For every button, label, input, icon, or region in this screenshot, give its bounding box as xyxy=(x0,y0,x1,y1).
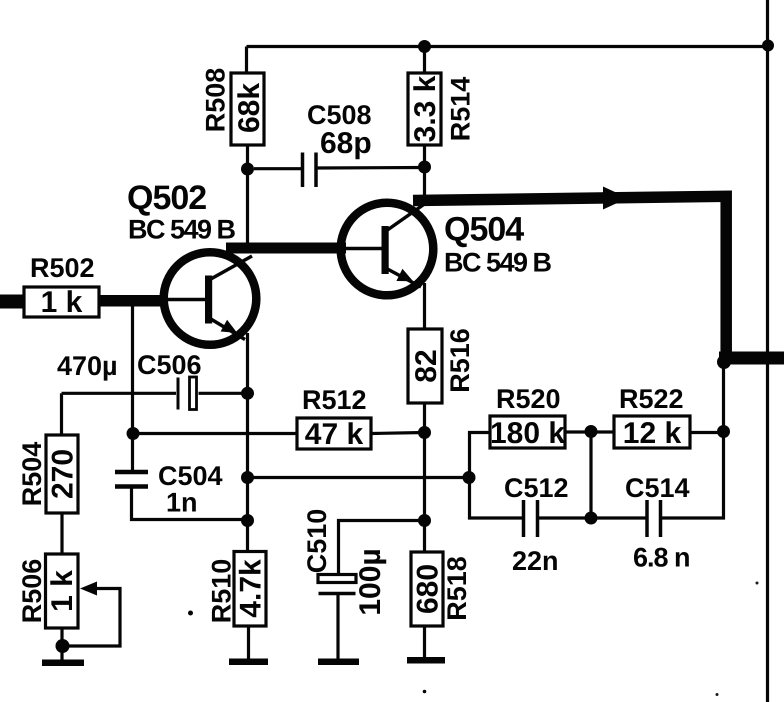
wire base node down to R512 xyxy=(131,303,134,434)
svg-text:4.7k: 4.7k xyxy=(235,559,268,618)
node junction rail / right border xyxy=(762,40,774,52)
resistor R520 180k xyxy=(490,384,565,450)
resistor R522 12k xyxy=(614,384,690,450)
resistor R512 47k xyxy=(133,385,425,451)
node junction feedback right xyxy=(463,471,476,484)
svg-text:Q504: Q504 xyxy=(444,211,524,249)
svg-text:12 k: 12 k xyxy=(623,417,682,450)
ground R510 xyxy=(229,659,268,666)
svg-text:22n: 22n xyxy=(512,546,559,576)
svg-text:BC 549 B: BC 549 B xyxy=(128,215,236,245)
wire feedback emitter to RC network xyxy=(248,476,470,479)
wire R514 bottom to Q504 collector xyxy=(423,145,426,198)
resistor R504 270 xyxy=(17,393,80,554)
label Q502 type BC549B xyxy=(128,215,236,245)
resistor R516 82 xyxy=(408,283,475,433)
node junction rail / R514 xyxy=(418,40,431,53)
capacitor C506 470u xyxy=(57,350,248,410)
svg-text:R520: R520 xyxy=(496,384,561,414)
capacitor C510 100u xyxy=(302,509,425,659)
wire rail corner to R508 xyxy=(245,47,248,74)
svg-text:R506: R506 xyxy=(17,559,47,624)
speck xyxy=(716,693,719,696)
resistor R508 6.8k xyxy=(201,68,267,145)
wire thick Q502 collector to Q504 base xyxy=(226,243,346,254)
svg-text:47 k: 47 k xyxy=(305,418,364,451)
svg-text:C504: C504 xyxy=(158,461,223,491)
resistor R506 1k preset xyxy=(17,554,120,660)
wire output node down to R522 xyxy=(722,365,725,432)
svg-text:C506: C506 xyxy=(137,350,202,380)
svg-text:68k: 68k xyxy=(233,83,266,133)
svg-text:68p: 68p xyxy=(320,127,372,160)
node junction C508 left xyxy=(241,163,254,176)
svg-text:100µ: 100µ xyxy=(354,548,387,615)
label Q504 xyxy=(444,211,524,249)
label Q502 xyxy=(127,179,206,217)
capacitor C514 6.8n xyxy=(591,432,724,573)
arrowhead on output wire xyxy=(603,187,628,210)
wire R520 to R522 xyxy=(565,430,614,433)
wire R522 right xyxy=(690,431,724,434)
wire thick R502 to Q502 base xyxy=(99,295,167,307)
label Q504 type BC549B xyxy=(444,248,552,278)
svg-text:C510: C510 xyxy=(302,509,332,574)
svg-text:180 k: 180 k xyxy=(490,417,565,450)
svg-text:1 k: 1 k xyxy=(46,570,79,612)
node junction R522 right xyxy=(717,425,730,438)
wire R520 C512 left branch xyxy=(470,433,524,519)
wire Q504 emitter branch down xyxy=(423,433,426,553)
wire middle branch vertical xyxy=(589,432,592,519)
wire top supply rail xyxy=(247,45,770,48)
capacitor C504 1n xyxy=(115,434,248,520)
svg-text:C514: C514 xyxy=(625,473,690,503)
svg-text:270: 270 xyxy=(47,449,80,499)
wire thick output to right edge xyxy=(719,352,784,365)
svg-text:6.8 n: 6.8 n xyxy=(633,543,690,573)
node junction R512 right / R516 bottom xyxy=(418,426,431,439)
transistor Q504 xyxy=(341,202,434,296)
resistor R518 680 xyxy=(411,552,472,659)
capacitor C512 22n xyxy=(504,473,591,576)
svg-text:R502: R502 xyxy=(30,253,95,283)
node junction C504 / emitter xyxy=(241,514,254,527)
svg-text:1n: 1n xyxy=(166,488,198,518)
wire R508 bottom to Q502 collector xyxy=(246,145,249,244)
speck xyxy=(756,582,759,585)
wire Q502 emitter down to R510 xyxy=(246,333,249,552)
svg-text:R504: R504 xyxy=(17,442,47,507)
node junction output corner xyxy=(717,355,731,369)
svg-text:R510: R510 xyxy=(207,559,237,624)
capacitor C508 68p xyxy=(254,100,425,187)
resistor R502 1k xyxy=(24,253,99,319)
svg-text:C508: C508 xyxy=(307,100,372,130)
ground R518 xyxy=(407,657,445,664)
resistor R510 4.7k xyxy=(207,552,268,659)
svg-text:R512: R512 xyxy=(302,385,367,415)
speck xyxy=(423,690,427,694)
svg-text:R516: R516 xyxy=(445,328,475,393)
svg-text:R522: R522 xyxy=(619,384,684,414)
svg-text:3.3 k: 3.3 k xyxy=(409,75,442,142)
node junction feedback / emitter xyxy=(241,471,254,484)
wire right bus line xyxy=(766,0,769,702)
svg-text:82: 82 xyxy=(410,349,443,382)
ground R506 xyxy=(42,660,84,667)
transistor Q502 xyxy=(163,252,256,345)
wire thick input stub to R502 xyxy=(0,295,24,309)
svg-text:R514: R514 xyxy=(446,77,476,142)
wire thick Q504 collector to output corner xyxy=(413,196,726,359)
node junction C508 right xyxy=(418,161,431,174)
svg-text:470µ: 470µ xyxy=(57,351,118,381)
svg-text:C512: C512 xyxy=(504,473,569,503)
svg-text:1 k: 1 k xyxy=(41,286,83,319)
node junction C512 C514 xyxy=(585,512,598,525)
svg-text:Q502: Q502 xyxy=(127,179,206,217)
node junction R506 bottom xyxy=(56,639,70,653)
node junction R512 left xyxy=(127,427,140,440)
svg-text:R508: R508 xyxy=(201,68,231,133)
speck xyxy=(188,611,193,616)
resistor R514 3.3k xyxy=(408,47,476,146)
svg-text:R518: R518 xyxy=(442,556,472,621)
node junction R520 R522 xyxy=(585,425,598,438)
ground C510 xyxy=(318,659,359,666)
svg-text:BC 549 B: BC 549 B xyxy=(444,248,552,278)
node junction C510 / R518 xyxy=(418,514,431,527)
svg-text:680: 680 xyxy=(412,564,445,614)
node junction C506 / emitter xyxy=(241,387,254,400)
